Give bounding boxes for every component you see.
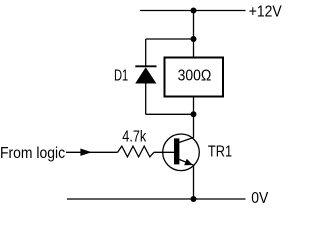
resistor R1 4.7k zigzag	[118, 146, 154, 157]
wire 0V bottom rail	[67, 198, 246, 200]
svg-text:D1: D1	[114, 67, 128, 84]
input signal arrowhead	[80, 149, 92, 156]
relay coil 300ohm box	[165, 58, 224, 97]
wire diode cathode vertical	[145, 39, 147, 66]
wire box bottom to collector junction	[193, 97, 195, 115]
wire +12V top rail	[140, 10, 246, 12]
wire emitter to 0V rail	[193, 165, 195, 199]
transistor TR1 circle	[163, 134, 200, 171]
junction top rail / collector branch	[191, 8, 197, 14]
svg-text:TR1: TR1	[208, 143, 232, 161]
wire diode branch bottom horizontal	[146, 113, 194, 115]
transistor TR1 emitter lead	[179, 160, 193, 166]
diode D1 cathode bar	[135, 65, 156, 67]
junction emitter / 0V rail	[191, 196, 197, 202]
svg-text:4.7k: 4.7k	[122, 128, 147, 146]
wire collector junction down to transistor	[193, 114, 195, 138]
transistor TR1 emitter arrowhead	[184, 159, 193, 165]
wire vertical from +12V rail to relay coil box top	[193, 11, 195, 58]
wire diode anode vertical	[145, 84, 147, 115]
transistor TR1 base bar	[174, 138, 179, 164]
junction diode branch tap	[191, 36, 197, 42]
svg-text:+12V: +12V	[249, 3, 282, 21]
svg-text:From logic: From logic	[0, 144, 66, 162]
diode D1 triangle	[135, 67, 156, 83]
wire input from logic	[66, 151, 118, 153]
transistor TR1 collector lead	[179, 138, 193, 143]
svg-text:0V: 0V	[251, 189, 268, 207]
wire resistor to transistor base	[154, 151, 174, 153]
wire diode branch top horizontal	[146, 38, 194, 40]
svg-text:300Ω: 300Ω	[178, 67, 212, 85]
junction bottom of coil and diode branch	[191, 111, 197, 117]
